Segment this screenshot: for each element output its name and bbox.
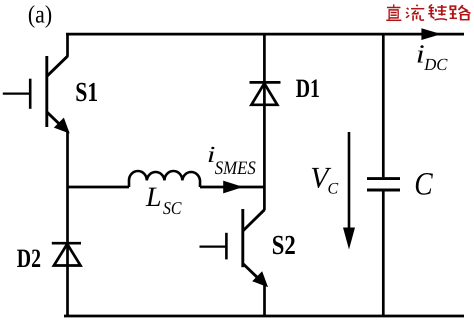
svg-text:(a): (a) (28, 2, 52, 29)
svg-text:D1: D1 (296, 73, 320, 103)
svg-text:C: C (328, 181, 339, 198)
svg-text:S1: S1 (75, 76, 98, 107)
svg-text:S2: S2 (272, 229, 296, 260)
svg-text:SMES: SMES (215, 158, 256, 179)
svg-text:C: C (414, 167, 433, 203)
svg-text:D2: D2 (17, 243, 41, 273)
svg-text:SC: SC (163, 198, 182, 218)
svg-text:L: L (145, 182, 162, 213)
svg-text:DC: DC (423, 55, 448, 74)
